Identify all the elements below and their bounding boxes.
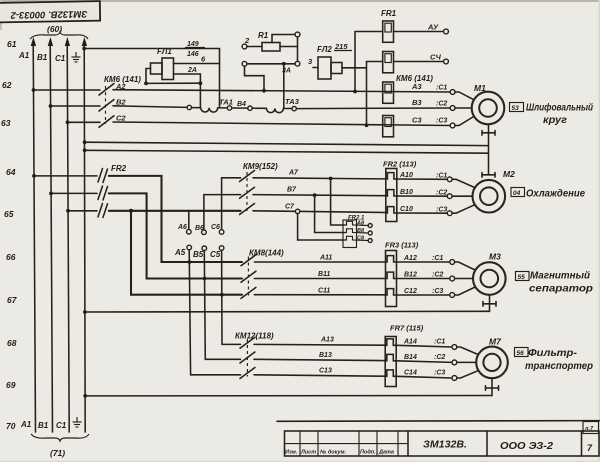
fuse FU1 (FL1) with tabs	[151, 58, 174, 80]
breaker FR2 pole 1	[34, 169, 108, 183]
node pole3 branch	[129, 209, 133, 213]
terminal circle AU	[444, 29, 449, 34]
svg-text:А12: А12	[403, 255, 417, 262]
node on phase C row	[365, 123, 369, 127]
wire A11 row	[254, 261, 385, 263]
svg-text:55: 55	[518, 274, 526, 281]
node TA3 drop junction	[282, 62, 286, 66]
svg-text:С14: С14	[404, 370, 417, 377]
stamp box top-left (rotated text)	[0, 1, 100, 22]
motor M7 leads	[457, 347, 478, 378]
svg-text:СЧ: СЧ	[430, 53, 442, 62]
wire FR1 left and riser to phase A	[355, 32, 383, 92]
KM6 contact A2	[34, 84, 115, 96]
wire B row	[283, 108, 292, 110]
node junction on 2A drop	[199, 81, 203, 85]
connector circle bottom left	[242, 61, 247, 66]
KM12 contact 2	[240, 352, 255, 363]
bus C1 vertical	[65, 37, 70, 432]
thermal relay FR7 block	[385, 337, 396, 387]
KM6 contact C2	[68, 116, 115, 128]
svg-text:В5: В5	[193, 250, 204, 259]
wire drop to TA3	[283, 64, 285, 109]
svg-text:С1: С1	[56, 421, 67, 430]
node on PE bus	[82, 47, 86, 51]
M1 frame bar	[482, 124, 495, 135]
node B5 descender to pole2 feed	[203, 277, 207, 281]
KM9 mechanical link dashed	[246, 172, 248, 212]
thermal relay FR2 block	[386, 169, 397, 222]
svg-text:Подп.: Подп.	[360, 450, 376, 456]
wire phase B run right part (B3)	[296, 107, 450, 110]
wire frame link M1 to M2	[488, 133, 490, 175]
KM6 mechanical link dashed	[105, 86, 107, 124]
svg-text:В13: В13	[319, 352, 332, 359]
KM9 contact 2	[240, 187, 255, 198]
svg-text:В8: В8	[357, 228, 365, 234]
connector circle C7 tap	[295, 209, 299, 213]
fuse for wire C4	[383, 52, 394, 73]
svg-text:С7: С7	[285, 204, 295, 211]
KM8 mechanical link dashed	[247, 257, 249, 297]
node A7 tap	[329, 177, 333, 181]
svg-text:С8: С8	[357, 236, 365, 242]
svg-text:67: 67	[7, 295, 18, 305]
ground symbol bottom	[73, 417, 82, 427]
wire C7 tap to FR2.1	[298, 214, 344, 240]
wire A13 row	[254, 343, 385, 346]
wire B row to TA1	[192, 107, 201, 109]
KM12 mechanical link dashed	[246, 339, 248, 377]
wire ground run L1	[85, 142, 489, 145]
wire C13 row	[254, 375, 385, 376]
KM9 contact 1	[240, 171, 255, 182]
svg-text:Лист: Лист	[300, 450, 316, 456]
node on phase A row	[262, 89, 266, 93]
svg-text:ТА1: ТА1	[219, 98, 233, 107]
wire bottom line of R1 cluster	[247, 63, 295, 65]
svg-text::С3: :С3	[436, 207, 447, 214]
wire phase B run left part	[113, 106, 187, 108]
wire descender A5 to KM12 C13	[189, 250, 240, 375]
bus PE vertical	[82, 37, 87, 432]
motor M3 leads	[455, 262, 476, 295]
thermal relay FR2.1	[343, 216, 372, 248]
wire B10 row	[397, 195, 448, 197]
node on PE bus	[83, 310, 87, 314]
svg-text:С13: С13	[319, 368, 332, 375]
svg-text::С1: :С1	[432, 255, 443, 262]
connector circle B6	[202, 230, 207, 235]
wire staircase from R1 bottom to phase A row	[245, 66, 265, 91]
connector circle on B row	[187, 105, 191, 109]
svg-text:69: 69	[6, 380, 16, 390]
wire ground run M3	[85, 310, 490, 313]
connector circle top of link	[295, 32, 300, 37]
wire riser A6 to KM9 C7 feed	[188, 212, 190, 230]
svg-text::С3: :С3	[436, 118, 447, 125]
svg-text:Шлифовальный: Шлифовальный	[526, 102, 593, 114]
bus B1 vertical	[48, 37, 53, 432]
svg-text:ООО ЭЗ-2: ООО ЭЗ-2	[500, 441, 553, 452]
svg-text:А8: А8	[356, 221, 365, 227]
terminal circle M1 C1	[450, 90, 455, 95]
svg-text:КМ9(152): КМ9(152)	[243, 162, 278, 171]
svg-text:С5: С5	[210, 250, 221, 259]
sheet ref box M7	[515, 348, 529, 358]
wire riser C6 to KM9 A7 feed	[222, 178, 241, 230]
KM9 contact 3	[240, 204, 255, 215]
svg-text:70: 70	[6, 421, 16, 431]
fuse FU2 (FL2) with tab	[318, 57, 342, 79]
KM8 contact 2	[241, 271, 256, 282]
svg-text:А5: А5	[174, 248, 186, 257]
svg-text:М1: М1	[474, 83, 486, 93]
wire B7 tap to FR2.1	[315, 195, 344, 232]
svg-text:В11: В11	[318, 271, 330, 278]
svg-text:круг: круг	[543, 115, 568, 126]
svg-text:Магнитный: Магнитный	[530, 271, 590, 282]
wire FL2 right to C tap riser	[342, 62, 367, 126]
motor M2	[473, 180, 506, 213]
svg-text:Охлаждение: Охлаждение	[526, 189, 585, 200]
svg-text:л.7: л.7	[584, 426, 594, 432]
svg-text:В14: В14	[404, 354, 417, 361]
wire ground run M7	[85, 395, 492, 397]
KM8 contact 1	[241, 255, 256, 266]
svg-text:FR1: FR1	[381, 9, 397, 18]
node on PE bus	[83, 140, 87, 144]
terminal circle M3 C2	[450, 276, 455, 281]
current transformer TA3	[266, 108, 283, 112]
svg-text:№ докум.: № докум.	[320, 450, 347, 456]
svg-text:65: 65	[4, 209, 14, 219]
resistor R1	[262, 43, 280, 52]
wire A12 row	[397, 261, 450, 263]
terminal circle 2	[242, 44, 247, 49]
wire A10 row	[397, 178, 448, 180]
wire FL2 left stub	[313, 67, 318, 69]
wire B4 segment	[232, 107, 248, 109]
svg-text:53: 53	[512, 105, 520, 112]
wire B7 row	[253, 195, 386, 196]
breaker FR2 pole 2	[51, 186, 108, 200]
FL1 value fraction 149/146	[185, 41, 205, 58]
svg-text:КМ12(118): КМ12(118)	[235, 332, 274, 341]
wire from PE bus to TA1 drop	[84, 49, 219, 108]
node on bus B1	[49, 192, 53, 196]
svg-text:А7: А7	[288, 170, 299, 177]
svg-text:Дата: Дата	[378, 450, 394, 456]
svg-text::С1: :С1	[436, 85, 447, 92]
svg-text:В12: В12	[404, 272, 417, 279]
KM12 contact 1	[240, 337, 255, 348]
wire C12 row	[397, 294, 450, 296]
terminal circle M3 C1	[450, 260, 455, 265]
brace over buses top	[30, 32, 88, 39]
wire staircase pole2 to KM8 B11	[109, 193, 242, 278]
wire C10 row	[397, 212, 448, 214]
node on PE bus	[83, 394, 87, 398]
wire B14 row	[396, 361, 452, 363]
fuse FR1	[383, 21, 394, 42]
svg-text:66: 66	[6, 252, 16, 262]
svg-text:62: 62	[2, 80, 12, 90]
svg-text:146: 146	[187, 51, 199, 58]
terminal circle M1 C3	[450, 123, 455, 128]
svg-text:транспортер: транспортер	[525, 361, 593, 372]
fuse phase C3	[383, 116, 394, 137]
node junction	[144, 82, 148, 86]
connector circle	[248, 106, 252, 110]
svg-text:R1: R1	[258, 31, 269, 40]
frame line above title block	[277, 420, 600, 423]
svg-text:FR2 (113): FR2 (113)	[383, 160, 417, 169]
wire A14 row	[396, 345, 452, 347]
svg-text:61: 61	[7, 39, 17, 49]
svg-text:ЗМ132В. 00033-2: ЗМ132В. 00033-2	[10, 8, 88, 20]
svg-text:М7: М7	[489, 337, 502, 347]
bus A1 vertical	[31, 37, 36, 432]
wire ground run L2	[85, 150, 489, 153]
wire riser B6 to KM9 B7 feed	[204, 195, 241, 230]
svg-text:С1: С1	[55, 54, 66, 63]
motor M7	[476, 347, 508, 379]
svg-text:(71): (71)	[50, 448, 65, 458]
svg-text:В4: В4	[237, 101, 246, 108]
brace under buses bottom	[31, 434, 89, 441]
svg-text:А3: А3	[411, 82, 422, 91]
node on bus A1	[32, 174, 36, 178]
wire staircase pole1 to KM8 A11	[109, 176, 242, 262]
svg-text:FR3 (113): FR3 (113)	[385, 241, 419, 250]
M2 frame bar	[482, 173, 495, 178]
svg-text:FR7 (115): FR7 (115)	[390, 324, 424, 333]
node B7 tap	[313, 193, 317, 197]
wire FL1 left to junction	[146, 69, 200, 84]
KM6 contact B2	[51, 100, 115, 112]
terminal circle C4	[444, 59, 449, 64]
wire C11 row	[254, 294, 385, 296]
svg-text::С1: :С1	[436, 173, 447, 180]
title block	[285, 431, 600, 456]
svg-text:В10: В10	[400, 189, 413, 196]
svg-text:С10: С10	[400, 206, 413, 213]
svg-text:А14: А14	[403, 339, 417, 346]
wire B12 row	[397, 278, 450, 280]
motor M1 leads	[455, 92, 474, 126]
svg-text:А11: А11	[319, 255, 332, 262]
connector circle C5	[219, 246, 224, 251]
breaker FR2 pole 3	[68, 203, 108, 217]
FL2 value 215 underlined	[334, 42, 352, 51]
svg-text:А1: А1	[20, 420, 32, 429]
wire phase C run (C2/C3)	[113, 122, 450, 126]
svg-text::С2: :С2	[434, 354, 445, 361]
svg-text:С2: С2	[116, 114, 126, 123]
svg-text:Фильтр-: Фильтр-	[528, 348, 578, 359]
svg-text:В7: В7	[287, 187, 297, 194]
svg-text:С12: С12	[404, 288, 417, 295]
sheet ref box M3	[516, 272, 530, 282]
svg-text:В1: В1	[37, 53, 48, 62]
svg-text:2А: 2А	[187, 67, 197, 74]
svg-text:С11: С11	[318, 288, 330, 295]
node C5 descender to pole3 feed	[220, 293, 224, 297]
wire C14 row	[396, 376, 452, 378]
svg-text:64: 64	[6, 167, 16, 177]
terminal circle M2 C1	[447, 177, 452, 182]
fuse phase A3	[383, 82, 394, 103]
title block sheet cell	[583, 422, 599, 434]
wire A7 tap to FR2.1	[331, 179, 344, 226]
node on phase A row	[353, 90, 357, 94]
wire B13 row	[254, 359, 385, 360]
terminal circle M2 C2	[447, 194, 452, 199]
svg-text:А13: А13	[320, 337, 334, 344]
wire A7 row	[253, 178, 386, 179]
current transformer TA1	[201, 108, 218, 112]
svg-text:2: 2	[244, 36, 250, 45]
svg-text:А6: А6	[177, 224, 187, 231]
wire 2A from FL1	[174, 74, 201, 108]
svg-text:63: 63	[1, 118, 11, 128]
svg-text:М3: М3	[489, 252, 501, 262]
KM12 contact 3	[240, 368, 255, 379]
sheet ref box M1	[510, 103, 524, 113]
connector circle A5	[187, 245, 192, 250]
svg-text:3А: 3А	[282, 68, 291, 75]
svg-text:В3: В3	[412, 98, 422, 107]
svg-text:В1: В1	[38, 421, 49, 430]
svg-text::С3: :С3	[432, 288, 443, 295]
svg-text::С2: :С2	[436, 101, 447, 108]
svg-text:FЛ2: FЛ2	[317, 45, 332, 54]
svg-text:АУ: АУ	[427, 23, 439, 32]
wire descender C5 to KM12 A13	[222, 250, 241, 344]
node on bus C1	[66, 209, 70, 213]
svg-text::С2: :С2	[432, 272, 443, 279]
terminal circle M3 C3	[450, 293, 455, 298]
connector circle	[227, 106, 231, 110]
svg-text:56: 56	[517, 350, 525, 357]
wire 6 from FL1	[174, 63, 220, 65]
svg-text:04: 04	[513, 190, 521, 197]
svg-text::С3: :С3	[434, 370, 445, 377]
M3 frame bar and ground drop	[483, 295, 496, 312]
wire fuse to terminal C4	[394, 61, 444, 63]
motor M3	[473, 262, 506, 295]
node on bus C1	[66, 120, 70, 124]
wire B row	[218, 107, 228, 109]
connector circle bottom of link	[295, 61, 300, 66]
motor M2 leads	[452, 179, 475, 213]
node on PE bus	[83, 148, 87, 152]
connector circle C6	[219, 230, 224, 235]
wire descender B5 to KM12 B13	[204, 251, 240, 360]
svg-text:Изм.: Изм.	[285, 450, 298, 456]
wire FR1 to terminal AU	[394, 31, 444, 33]
svg-text:ЗМ132В.: ЗМ132В.	[423, 440, 467, 451]
svg-text:215: 215	[334, 42, 348, 51]
wire B row	[252, 107, 266, 109]
svg-text::С1: :С1	[434, 339, 445, 346]
wire C4 fuse left	[367, 61, 383, 63]
connector circle B5	[202, 246, 207, 251]
wire phase A run (A2/A3)	[113, 90, 450, 92]
connector circle A6	[187, 229, 192, 234]
terminal circle M1 C2	[450, 106, 455, 111]
R1 bypass link wire	[272, 35, 298, 62]
svg-text:ТА3: ТА3	[285, 97, 300, 106]
connector circle	[292, 106, 296, 110]
svg-text:FR2: FR2	[111, 164, 127, 173]
node on bus A1 row 62	[32, 88, 36, 92]
thermal relay FR3 block	[386, 251, 397, 307]
svg-text::С2: :С2	[436, 190, 447, 197]
wire B11 row	[254, 278, 385, 280]
sheet ref box M2	[511, 188, 525, 198]
svg-text:68: 68	[7, 338, 17, 348]
motor M1	[472, 92, 505, 125]
wire staircase pole3 to KM9 C7 feed and KM8 C11	[109, 211, 242, 295]
terminal circle M7 C3	[452, 376, 457, 381]
terminal circle M7 C1	[452, 345, 457, 350]
wire C7 row	[253, 211, 386, 213]
node A5 descender to pole1 feed	[188, 260, 192, 264]
svg-text:С6: С6	[211, 224, 220, 231]
wire R1 right to link	[280, 46, 298, 48]
svg-text:С3: С3	[412, 116, 422, 125]
svg-text:М2: М2	[503, 169, 515, 179]
terminal circle M7 C2	[452, 360, 457, 365]
wire 2 to R1	[247, 46, 262, 48]
node on bus B1	[49, 104, 53, 108]
svg-text:А1: А1	[18, 51, 30, 60]
svg-text:сепаратор: сепаратор	[529, 284, 593, 295]
terminal circle M2 C3	[447, 211, 452, 216]
svg-text:А10: А10	[399, 172, 413, 179]
KM8 contact 3	[241, 287, 256, 298]
M7 frame bar and ground drop	[486, 378, 499, 395]
ground symbol top	[72, 52, 81, 62]
